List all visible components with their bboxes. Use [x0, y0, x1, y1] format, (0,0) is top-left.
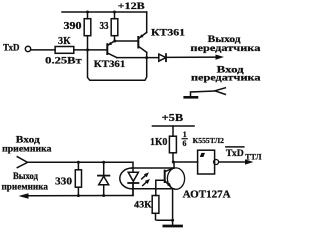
svg-text:ТТЛ: ТТЛ	[245, 151, 262, 161]
resistor 1K0	[169, 136, 176, 163]
svg-text:1: 1	[183, 130, 187, 139]
wire diode to output arrow	[166, 56, 218, 58]
svg-text:приемника: приемника	[2, 145, 52, 155]
transistor Q1 KT361	[107, 40, 117, 58]
light arrows	[142, 172, 150, 185]
node TxD terminal	[25, 46, 30, 51]
svg-text:АОТ127А: АОТ127А	[183, 189, 232, 200]
svg-text:приемника: приемника	[2, 182, 49, 192]
overline TxD	[226, 146, 244, 148]
wire 3K to base node	[74, 49, 107, 51]
wire receiver input top rail	[28, 162, 134, 172]
connector stub transmitter input	[185, 88, 226, 98]
svg-text:ТхD: ТхD	[226, 149, 244, 159]
resistor 390	[84, 11, 91, 50]
wire collector to node	[173, 162, 175, 168]
resistor 43K	[152, 196, 174, 222]
optocoupler AOT127A body capsule	[120, 168, 174, 189]
svg-text:КТ361: КТ361	[94, 60, 126, 70]
node base Q1 junction	[86, 48, 89, 51]
LED inside optocoupler	[128, 172, 138, 195]
wire receiver output bottom rail	[27, 183, 133, 196]
svg-text:ТхD: ТхD	[3, 44, 20, 54]
wire base to 43K	[156, 180, 165, 195]
node collector cross junction	[145, 56, 148, 59]
svg-text:К555ТЛ2: К555ТЛ2	[193, 136, 225, 145]
phototransistor element	[165, 168, 174, 189]
wire Q1 collector line	[117, 57, 159, 59]
phototransistor circle	[167, 168, 184, 189]
node receiver input arrow	[17, 157, 27, 168]
svg-text:КТ361: КТ361	[151, 29, 185, 39]
svg-text:33: 33	[100, 21, 109, 32]
svg-text:330: 330	[55, 176, 72, 187]
svg-text:43К: 43К	[134, 200, 152, 210]
logic gate K555TL2 inverter	[198, 150, 219, 174]
wire TxD to resistor 3K	[31, 49, 55, 51]
svg-text:+5В: +5В	[162, 113, 184, 124]
svg-text:3К: 3К	[58, 36, 71, 47]
wire emitter node to Q2 base	[115, 40, 138, 42]
wire Q2 collector feedback loop to base node	[88, 50, 147, 80]
svg-text:390: 390	[64, 21, 82, 32]
diode VD1	[159, 54, 166, 61]
svg-text:+12В: +12В	[118, 2, 146, 12]
resistor 3K 0.25W	[55, 47, 74, 54]
label 1/6 fraction	[182, 130, 188, 148]
wire Q2 emitter to +12 rail	[145, 12, 147, 33]
svg-text:0.25Вт: 0.25Вт	[45, 57, 82, 67]
svg-text:Выход: Выход	[13, 172, 38, 182]
svg-text:6: 6	[183, 139, 187, 148]
svg-text:передатчика: передатчика	[191, 73, 261, 83]
ground	[164, 220, 182, 226]
svg-text:передатчика: передатчика	[190, 44, 260, 54]
power +5V bar	[153, 126, 195, 136]
wire emitter down	[172, 189, 174, 220]
wire gate output arrow	[219, 161, 247, 163]
svg-text:1К0: 1К0	[150, 137, 167, 148]
power rail +12V	[62, 11, 147, 13]
resistor 33	[111, 11, 118, 42]
diode VD2 protection	[98, 161, 109, 197]
wire node to gate input	[173, 161, 198, 163]
resistor 330	[75, 161, 81, 197]
transistor Q2 KT361	[138, 33, 146, 53]
